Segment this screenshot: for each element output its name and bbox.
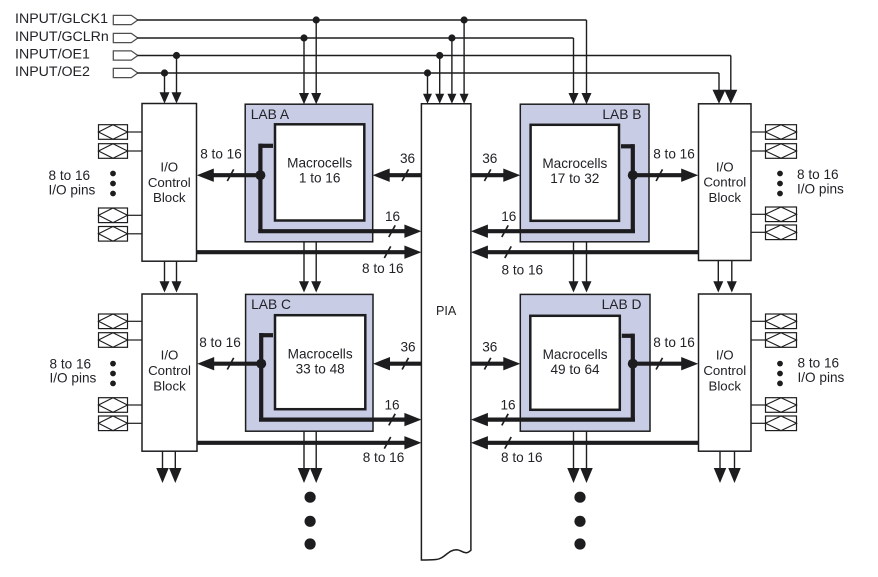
arrows I/O top-right to I/O bottom-right — [713, 261, 737, 293]
svg-text:8 to 16: 8 to 16 — [200, 146, 242, 161]
svg-text:I/O: I/O — [160, 160, 178, 175]
svg-text:8 to 16: 8 to 16 — [798, 355, 840, 370]
svg-text:INPUT/OE1: INPUT/OE1 — [15, 47, 90, 63]
I/O Control Block bottom-left — [142, 294, 197, 451]
svg-text:Block: Block — [708, 378, 741, 393]
bus I/O bottom-left to PIA (8 to 16) — [197, 436, 421, 449]
svg-text:8 to 16: 8 to 16 — [199, 335, 241, 350]
arrows LAB A to LAB C — [299, 242, 321, 293]
slash on LAB A to I/O bus — [227, 169, 233, 181]
bus PIA to LAB A (36) — [373, 169, 422, 182]
I/O Control Block bottom-right — [699, 294, 752, 451]
PIA block — [421, 104, 471, 560]
svg-text:Control: Control — [148, 363, 191, 378]
svg-text:8 to 16: 8 to 16 — [49, 168, 91, 183]
input pin symbol INPUT/GCLRn — [113, 33, 138, 42]
I/O top-left ellipsis dots — [110, 171, 116, 197]
svg-text:LAB B: LAB B — [602, 107, 641, 122]
slash on bottom-right 8-16 bus — [505, 437, 511, 449]
bus LAB B macrocell feedback to PIA (16) — [471, 144, 635, 238]
I/O top-right pin symbols — [751, 125, 797, 240]
exit arrows below I/O bottom-left — [156, 451, 181, 483]
LAB A block — [245, 104, 373, 242]
svg-text:16: 16 — [384, 397, 399, 412]
slash on 36 bus to LAB D — [484, 358, 490, 370]
I/O Control Block top-right — [699, 104, 752, 261]
bus I/O top-right to PIA (8 to 16) — [471, 246, 699, 259]
wire INPUT/GLCK1 — [137, 20, 591, 104]
bus LAB C to I/O control block (8 to 16) — [197, 357, 261, 370]
slash on 36 bus to LAB B — [484, 169, 490, 181]
svg-text:8 to 16: 8 to 16 — [653, 146, 695, 161]
svg-text:Block: Block — [153, 190, 186, 205]
svg-text:INPUT/GLCK1: INPUT/GLCK1 — [15, 11, 108, 27]
slash on LAB B 16 bus — [502, 225, 508, 237]
svg-text:INPUT/GCLRn: INPUT/GCLRn — [15, 29, 109, 45]
svg-text:8 to 16: 8 to 16 — [50, 356, 92, 371]
svg-text:I/O pins: I/O pins — [798, 370, 845, 385]
svg-text:49 to 64: 49 to 64 — [550, 362, 600, 377]
svg-text:Control: Control — [703, 363, 746, 378]
slash on LAB C to I/O bus — [227, 358, 233, 370]
svg-text:Macrocells: Macrocells — [287, 156, 352, 171]
I/O bottom-left pin symbols — [99, 314, 143, 431]
bus LAB C macrocell feedback to PIA (16) — [259, 333, 421, 426]
slash on top-left 8-16 bus — [384, 246, 390, 258]
I/O bottom-right pin symbols — [751, 314, 797, 431]
I/O bottom-left label — [50, 356, 97, 385]
svg-text:I/O: I/O — [716, 348, 734, 363]
slash on top-right 8-16 bus — [505, 246, 511, 258]
I/O top-left label — [49, 168, 96, 198]
svg-text:Block: Block — [153, 378, 186, 393]
input pin symbol INPUT/OE1 — [113, 51, 138, 60]
svg-text:8 to 16: 8 to 16 — [797, 167, 839, 182]
I/O bottom-right label — [798, 355, 845, 385]
svg-text:Control: Control — [703, 175, 746, 190]
bus PIA to LAB C (36) — [373, 357, 421, 370]
svg-text:Block: Block — [708, 190, 741, 205]
svg-text:LAB D: LAB D — [602, 297, 642, 312]
svg-text:17 to 32: 17 to 32 — [550, 171, 599, 186]
slash on LAB C 16 bus — [389, 414, 395, 426]
slash on LAB D 16 bus — [502, 414, 508, 426]
junction and drop from INPUT/OE1 at x=176 — [172, 52, 182, 104]
svg-text:Macrocells: Macrocells — [542, 156, 607, 171]
I/O top-right ellipsis dots — [777, 171, 783, 197]
junction and drop from INPUT/GLCK1 at x=316 — [311, 16, 321, 104]
bus LAB A macrocell feedback to PIA (16) — [258, 144, 421, 238]
bus PIA to LAB D (36) — [471, 357, 520, 370]
ellipsis dots below LAB C — [305, 492, 316, 550]
bus LAB D to I/O control block (8 to 16) — [633, 357, 698, 370]
svg-text:16: 16 — [385, 209, 400, 224]
bus I/O bottom-right to PIA (8 to 16) — [471, 436, 699, 449]
svg-text:I/O: I/O — [161, 348, 179, 363]
svg-text:33 to 48: 33 to 48 — [296, 361, 345, 376]
svg-text:I/O pins: I/O pins — [797, 181, 844, 196]
macrocells 49 to 64 (LAB D) — [530, 316, 620, 410]
svg-text:I/O pins: I/O pins — [49, 182, 96, 197]
exit arrows below LAB C — [298, 431, 323, 483]
slash on 36 bus to LAB C — [402, 358, 408, 370]
arrows LAB B to LAB D — [569, 242, 592, 293]
LAB D block — [520, 294, 650, 431]
svg-text:8 to 16: 8 to 16 — [501, 450, 543, 465]
svg-text:8 to 16: 8 to 16 — [653, 335, 695, 350]
I/O bottom-left ellipsis dots — [110, 361, 116, 387]
ellipsis dots below LAB D — [574, 492, 585, 550]
svg-text:I/O: I/O — [716, 159, 734, 174]
junction LAB D bus node — [628, 359, 638, 369]
svg-text:16: 16 — [500, 397, 515, 412]
slash on bottom-left 8-16 bus — [384, 437, 390, 449]
svg-text:I/O pins: I/O pins — [50, 371, 97, 386]
svg-text:8 to 16: 8 to 16 — [362, 261, 404, 276]
svg-text:Macrocells: Macrocells — [543, 347, 608, 362]
macrocells 1 to 16 (LAB A) — [275, 124, 364, 220]
svg-text:PIA: PIA — [436, 304, 457, 318]
svg-text:Control: Control — [148, 175, 191, 190]
bus LAB D macrocell feedback to PIA (16) — [471, 334, 635, 427]
bus LAB B to I/O control block (8 to 16) — [633, 169, 698, 182]
junction LAB A bus node — [255, 170, 265, 180]
svg-text:LAB A: LAB A — [251, 107, 290, 122]
arrows I/O top-left to I/O bottom-left — [160, 261, 182, 292]
svg-text:16: 16 — [501, 209, 516, 224]
svg-text:INPUT/OE2: INPUT/OE2 — [15, 64, 90, 80]
svg-text:36: 36 — [400, 151, 415, 166]
svg-text:LAB C: LAB C — [251, 297, 291, 312]
bus LAB A to I/O control block (8 to 16) — [197, 169, 261, 182]
svg-text:Macrocells: Macrocells — [288, 346, 353, 361]
LAB B block — [520, 104, 649, 242]
junction LAB B bus node — [628, 170, 638, 180]
junction and drop from INPUT/OE2 at x=164 — [160, 69, 170, 103]
junction and drop from INPUT/GCLRn at x=451 — [447, 34, 456, 103]
I/O top-left pin symbols — [99, 125, 143, 241]
slash on LAB D to I/O bus — [656, 358, 662, 370]
bus PIA to LAB B (36) — [471, 169, 520, 182]
svg-text:36: 36 — [400, 340, 415, 355]
slash on LAB A 16 bus — [389, 225, 395, 237]
macrocells 33 to 48 (LAB C) — [275, 315, 365, 409]
junction and drop from INPUT/OE1 at x=439 — [435, 52, 444, 104]
junction LAB C bus node — [256, 359, 266, 369]
svg-text:36: 36 — [482, 340, 497, 355]
svg-text:8 to 16: 8 to 16 — [502, 262, 544, 277]
I/O top-right label — [797, 167, 844, 197]
wire INPUT/OE1 — [137, 56, 737, 104]
exit arrows below LAB D — [567, 431, 593, 483]
exit arrows below I/O bottom-right — [714, 451, 741, 483]
I/O Control Block top-left — [142, 104, 197, 262]
junction and drop from INPUT/GLCK1 at x=464 — [460, 16, 469, 103]
slash on 36 bus to LAB A — [402, 169, 408, 181]
junction and drop from INPUT/OE2 at x=427 — [423, 69, 432, 103]
slash on LAB B to I/O bus — [656, 169, 662, 181]
LAB C block — [246, 294, 373, 431]
junction and drop from INPUT/GCLRn at x=304 — [299, 34, 309, 104]
svg-text:36: 36 — [482, 151, 497, 166]
input pin symbol INPUT/OE2 — [113, 68, 138, 77]
input pin symbol INPUT/GLCK1 — [113, 15, 138, 24]
wire INPUT/GCLRn — [137, 38, 578, 104]
I/O bottom-right ellipsis dots — [777, 361, 783, 387]
macrocells 17 to 32 (LAB B) — [531, 125, 619, 221]
svg-text:8 to 16: 8 to 16 — [363, 450, 405, 465]
svg-text:1 to 16: 1 to 16 — [299, 171, 341, 186]
bus I/O top-left to PIA (8 to 16) — [197, 246, 422, 259]
wire INPUT/OE2 — [137, 73, 725, 104]
